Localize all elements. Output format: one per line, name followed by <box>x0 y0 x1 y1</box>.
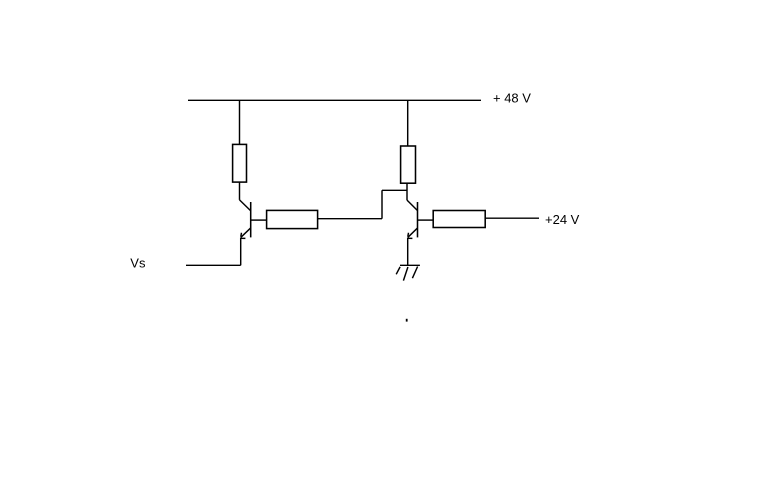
svg-text:+24 V: +24 V <box>545 212 580 227</box>
svg-text:Vs: Vs <box>130 256 146 271</box>
svg-text:+ 48 V: + 48 V <box>493 90 531 105</box>
